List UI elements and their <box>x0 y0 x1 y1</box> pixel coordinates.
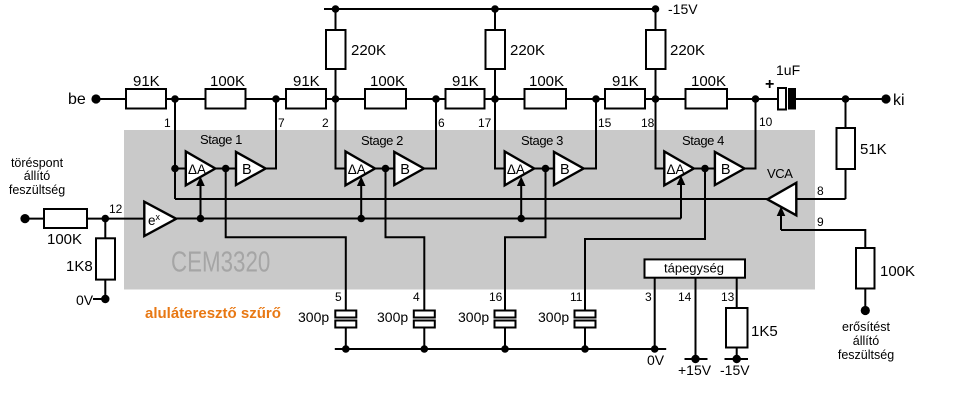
wire: 91K to 100K across node 2 <box>326 98 365 100</box>
wire: 1uF to ki terminal <box>796 98 886 100</box>
svg-text:100K: 100K <box>529 73 564 90</box>
wire: 100K to 91K across node 6 <box>406 98 446 100</box>
supply +15V <box>685 358 708 360</box>
svg-text:+15V: +15V <box>678 362 712 378</box>
svg-text:91K: 91K <box>293 73 320 90</box>
op-amp dA (stage 3) <box>505 152 535 186</box>
wire: 100K to control terminal <box>864 289 866 309</box>
wire: 91K to 100K across node 1 <box>166 98 206 100</box>
svg-text:B: B <box>242 162 252 178</box>
svg-text:100K: 100K <box>691 73 726 90</box>
svg-text:tápegység: tápegység <box>664 261 724 276</box>
power supply block tápegység <box>645 259 746 277</box>
wire: third 220K to node 18 <box>655 69 657 99</box>
wire: 100K to 91K across node 7 <box>246 98 287 100</box>
resistor 91K (stage 3) <box>446 89 485 109</box>
-15V top supply rail <box>324 8 658 10</box>
svg-text:B: B <box>721 162 731 178</box>
junction: C16 to ground rail <box>501 345 509 353</box>
buffer B (stage 1) <box>236 152 266 185</box>
node: control junction stage 1 <box>197 215 205 223</box>
svg-text:ΔA: ΔA <box>667 162 685 177</box>
svg-text:10: 10 <box>759 115 773 129</box>
node 7 junction <box>272 95 280 103</box>
ground rail 0V (bottom) <box>335 348 666 350</box>
node: output junction to 51K <box>842 95 850 103</box>
node: pin 12 junction <box>102 215 110 223</box>
op-amp dA (stage 1) <box>186 152 216 186</box>
node 10 junction <box>752 95 760 103</box>
wire: 1K5 to -15V <box>736 348 738 360</box>
resistor 100K (frequency control) <box>44 209 87 228</box>
svg-text:1K8: 1K8 <box>66 258 93 275</box>
junction: C11 to ground rail <box>581 345 589 353</box>
svg-text:51K: 51K <box>860 141 887 158</box>
arrow into VCA from pin 9 <box>780 211 782 230</box>
svg-text:91K: 91K <box>452 73 479 90</box>
node: dA1 input junction <box>171 165 179 173</box>
svg-text:-15V: -15V <box>668 1 698 17</box>
wire: B3 output up to node 15 <box>584 99 596 169</box>
svg-text:ΔA: ΔA <box>348 162 366 177</box>
svg-text:Stage 3: Stage 3 <box>521 133 563 148</box>
svg-text:91K: 91K <box>612 73 639 90</box>
svg-text:300p: 300p <box>538 309 569 325</box>
svg-text:100K: 100K <box>880 263 915 280</box>
svg-text:Stage 4: Stage 4 <box>682 133 724 148</box>
wire: 91K to 100K across node 17 <box>485 98 525 100</box>
feedback rail: VCA output to stage 1 input <box>175 198 767 200</box>
node: control junction stage 3 <box>517 215 525 223</box>
wire: node down to 1K8 <box>104 219 106 239</box>
buffer B (stage 3) <box>554 152 584 185</box>
wire: terminal to 100K <box>25 218 44 220</box>
wire: node 1 down to dA1 input and feedback rail <box>174 99 176 199</box>
wire: 100K to output cap across node 10 <box>727 98 778 100</box>
node 18 junction <box>652 95 660 103</box>
resistor 100K (stage 2) <box>365 89 406 109</box>
wire: into dA1 <box>175 168 186 170</box>
wire: 100K to pin 12 node <box>87 218 144 220</box>
svg-text:11: 11 <box>570 290 583 304</box>
svg-text:1K5: 1K5 <box>751 323 778 340</box>
svg-text:ki: ki <box>893 92 905 109</box>
wire: pin 13 to 1K5 <box>736 278 738 308</box>
svg-text:ΔA: ΔA <box>507 162 525 177</box>
terminal: gain control voltage <box>861 306 870 315</box>
junction on -15V rail above node 2 <box>332 5 340 13</box>
wire: 91K to 100K across node 18 <box>645 98 686 100</box>
wire: dA4 output down to C 300p (pin 11) <box>585 169 705 311</box>
wire: VCA pin 9 control line <box>781 230 865 248</box>
svg-text:ΔA: ΔA <box>188 162 206 177</box>
wire: dA1 output down to C 300p (pin 5) <box>226 169 346 311</box>
svg-text:7: 7 <box>278 116 285 130</box>
control rail: ex output across stages <box>176 218 681 220</box>
resistor 100K (stage 3) <box>525 89 567 109</box>
resistor 220K (feedback, stage 1-2) <box>326 30 346 69</box>
svg-text:1: 1 <box>164 116 171 130</box>
wire: pin 3 to ground rail <box>654 278 656 349</box>
node 2 junction <box>332 95 340 103</box>
resistor 220K (feedback, stage 3-4) <box>646 30 666 69</box>
resistor 91K (stage 2) <box>286 89 326 109</box>
wire: dA3 out to B3 <box>534 168 554 170</box>
wire: node 18 down into dA4 input <box>656 99 665 169</box>
junction: C4 to ground rail <box>421 345 429 353</box>
wire: -15V rail to first 220K <box>335 9 337 30</box>
wire: VCA pin 8 to 51K <box>796 198 845 200</box>
svg-text:állító: állító <box>24 169 50 183</box>
wire: be terminal to R 91K <box>96 98 126 100</box>
wire: node 17 down into dA3 input <box>495 99 505 169</box>
terminal: frequency control input <box>20 214 29 223</box>
wire: node 2 down into dA2 input <box>336 99 346 169</box>
svg-text:100K: 100K <box>47 231 82 248</box>
node 6 junction <box>432 95 440 103</box>
svg-text:18: 18 <box>641 116 655 130</box>
resistor 220K (feedback, stage 2-3) <box>486 30 506 69</box>
node: dA4 output junction <box>701 165 709 173</box>
buffer B (stage 2) <box>394 152 424 185</box>
wire: -15V rail to third 220K <box>655 9 657 30</box>
junction: C5 to ground rail <box>342 345 350 353</box>
svg-text:2: 2 <box>322 116 329 130</box>
junction on -15V rail above node 17 <box>491 5 499 13</box>
wire: second 220K to node 17 <box>494 69 496 99</box>
svg-text:8: 8 <box>817 184 824 198</box>
svg-text:4: 4 <box>413 290 420 304</box>
svg-text:CEM3320: CEM3320 <box>171 247 270 278</box>
svg-text:16: 16 <box>489 290 503 304</box>
svg-text:Stage 2: Stage 2 <box>361 133 403 148</box>
op-amp dA (stage 2) <box>346 152 376 186</box>
node 15 junction <box>592 95 600 103</box>
node 17 junction <box>491 95 499 103</box>
wire: dA1 out to B1 <box>215 168 236 170</box>
resistor 100K (stage 1) <box>206 89 246 109</box>
wire: B1 output up to node 7 <box>266 99 276 169</box>
buffer B (stage 4) <box>715 152 745 185</box>
resistor 100K (gain control) <box>856 248 875 289</box>
wire: dA4 out to B4 <box>694 168 715 170</box>
wire: B4 output up to node 10 <box>745 99 756 169</box>
svg-text:300p: 300p <box>458 309 489 325</box>
resistor 51K (output load) <box>837 128 856 169</box>
svg-text:12: 12 <box>109 202 123 216</box>
svg-text:aluláteresztő szűrő: aluláteresztő szűrő <box>145 305 281 322</box>
output terminal ki <box>881 94 890 103</box>
arrow into dA4 (end of control rail) <box>680 180 682 219</box>
wire: 1K8 to 0V <box>104 280 106 299</box>
svg-text:töréspont: töréspont <box>11 156 64 170</box>
wire: dA2 out to B2 <box>375 168 394 170</box>
svg-text:0V: 0V <box>647 352 665 368</box>
svg-text:100K: 100K <box>210 73 245 90</box>
junction: pin 3 to ground rail <box>651 345 659 353</box>
junction on -15V rail above node 18 <box>652 5 660 13</box>
svg-text:220K: 220K <box>510 42 545 59</box>
wire: dA3 output down to C 300p (pin 16) <box>505 169 546 311</box>
resistor 91K (stage 4) <box>605 89 645 109</box>
svg-text:állító: állító <box>853 334 879 348</box>
wire: pin 14 to +15V <box>695 278 697 359</box>
arrow into dA3 <box>520 181 522 219</box>
node: dA2 output junction <box>382 165 390 173</box>
supply -15V (bottom) <box>725 358 749 360</box>
svg-text:5: 5 <box>335 290 342 304</box>
svg-text:14: 14 <box>678 290 692 304</box>
svg-text:be: be <box>68 91 86 108</box>
svg-text:300p: 300p <box>377 309 408 325</box>
resistor 100K (stage 4) <box>686 89 728 109</box>
node: dA3 output junction <box>542 165 550 173</box>
wire: 51K down to VCA pin 8 line <box>845 169 847 199</box>
svg-text:100K: 100K <box>370 73 405 90</box>
arrow into dA2 <box>360 181 362 219</box>
svg-text:-15V: -15V <box>720 362 750 378</box>
svg-text:erősítést: erősítést <box>842 320 890 334</box>
svg-text:B: B <box>400 162 410 178</box>
node 1 junction <box>171 95 179 103</box>
svg-text:220K: 220K <box>670 42 705 59</box>
resistor 91K (input, stage 1) <box>126 89 166 109</box>
svg-text:15: 15 <box>598 116 612 130</box>
svg-text:0V: 0V <box>76 292 94 308</box>
svg-text:9: 9 <box>817 215 824 229</box>
svg-text:B: B <box>560 162 570 178</box>
op-amp ex (exponential converter) <box>144 202 176 236</box>
resistor 1K8 <box>96 238 115 279</box>
node: control junction stage 2 <box>357 215 365 223</box>
svg-text:feszültség: feszültség <box>9 183 65 197</box>
svg-text:17: 17 <box>478 116 492 130</box>
svg-text:VCA: VCA <box>767 166 793 181</box>
svg-text:Stage 1: Stage 1 <box>200 132 242 147</box>
wire: dA2 output down to C 300p (pin 4) <box>386 169 425 311</box>
wire: -15V rail to second 220K <box>494 9 496 30</box>
svg-text:13: 13 <box>721 290 735 304</box>
wire: 100K to 91K across node 15 <box>566 98 605 100</box>
op-amp dA (stage 4) <box>664 152 694 186</box>
wire: first 220K to node 2 <box>335 69 337 99</box>
arrow into dA1 <box>200 181 202 219</box>
svg-text:+: + <box>765 76 774 93</box>
node: dA1 output junction <box>222 165 230 173</box>
svg-text:300p: 300p <box>298 309 329 325</box>
svg-text:feszültség: feszültség <box>838 348 894 362</box>
wire: B2 output up to node 6 <box>424 99 436 169</box>
resistor 1K5 <box>726 308 748 348</box>
svg-text:3: 3 <box>645 290 652 304</box>
svg-text:91K: 91K <box>133 73 160 90</box>
wire: output node down to 51K <box>845 99 847 128</box>
svg-text:6: 6 <box>438 116 445 130</box>
capacitor 1uF (output, polarized) <box>778 88 786 110</box>
IC body CEM3320 (gray box) <box>124 130 815 290</box>
svg-text:1uF: 1uF <box>776 62 800 78</box>
svg-text:220K: 220K <box>351 42 386 59</box>
